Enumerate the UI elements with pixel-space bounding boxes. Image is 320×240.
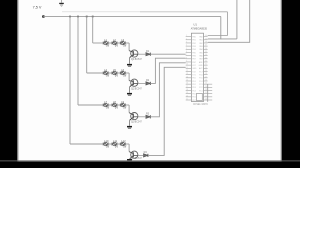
transistor Q3 [129,113,138,121]
wire row3 emitter to ground [129,120,131,126]
svg-text:5V: 5V [106,144,109,148]
wire row2 chain seg 1 [108,72,112,74]
label ATMEGA8535 [191,27,208,31]
svg-text:XT1: XT1 [192,75,195,77]
svg-text:14: 14 [186,76,188,78]
ground row4 [127,159,132,162]
svg-text:2: 2 [186,38,187,40]
svg-text:CKSEL=1MHz: CKSEL=1MHz [193,104,209,106]
svg-text:5V: 5V [106,43,109,47]
svg-text:PC6: PC6 [199,75,203,77]
svg-text:BC547: BC547 [135,158,143,160]
svg-text:21: 21 [186,99,188,101]
wire row1 feed [93,42,104,44]
transistor Q4 [129,151,138,159]
label Q4 BC547 [131,157,143,160]
wire row3 chain to collector [125,105,129,113]
svg-text:PB1: PB1 [192,40,195,42]
transistor Q1 [129,50,138,58]
IC U1 body [191,33,203,101]
svg-text:36: 36 [205,48,207,50]
svg-text:PB4: PB4 [192,49,195,51]
svg-text:20: 20 [205,99,207,101]
junction drop 2 on rail [86,16,88,18]
svg-text:26: 26 [205,79,207,81]
svg-text:PC1: PC1 [199,90,203,92]
svg-text:PA7: PA7 [199,58,202,61]
wire main +7,5V rail [43,15,221,17]
IC internal sub-box [197,93,203,100]
svg-text:PB6: PB6 [192,56,195,58]
lamp L6 row2 [120,68,126,77]
wire row4 feed [70,143,104,145]
wire IC pin3 to top edge [208,0,250,42]
svg-text:PB2: PB2 [192,43,195,45]
wire vertical drop 2 [86,16,88,73]
svg-text:8: 8 [186,57,187,59]
wire row4 emitter to ground [129,158,131,160]
wire row3 base lead a [138,116,146,118]
svg-text:23: 23 [205,89,207,91]
svg-text:20: 20 [186,95,188,97]
svg-text:32: 32 [205,60,207,62]
wire row2 to IC pin [150,58,185,83]
svg-text:5: 5 [186,48,187,50]
lamp L11 row4 [112,139,118,148]
svg-text:PC7: PC7 [199,71,203,73]
svg-text:5V: 5V [115,43,118,47]
svg-text:31: 31 [205,64,207,66]
svg-text:34: 34 [205,54,207,56]
left letterbox bar [0,0,19,168]
wire row3 feed [78,104,104,106]
svg-text:PD5: PD5 [192,94,196,96]
svg-text:PA2: PA2 [199,42,202,45]
svg-text:BC547: BC547 [135,122,143,124]
svg-text:24: 24 [205,86,207,88]
lamp L10 row4 [103,139,109,148]
wire faint top rail (battery+ to IC pin1) [62,12,227,36]
svg-text:BC547: BC547 [135,59,143,61]
lamp L5 row2 [112,68,118,77]
svg-text:PA5: PA5 [199,51,202,54]
svg-text:15: 15 [186,79,188,81]
svg-text:5V: 5V [115,73,118,77]
right letterbox bar [280,0,300,168]
svg-text:3: 3 [186,41,187,43]
wire row2 base lead a [138,82,146,84]
wire row2 chain seg 2 [117,72,121,74]
svg-text:30: 30 [205,67,207,69]
svg-text:PC5: PC5 [199,78,203,80]
wire row3 to IC pin [150,63,185,117]
lamp L9 row3 [120,100,126,109]
svg-text:PA0: PA0 [199,36,202,39]
wire row1 emitter to ground [129,58,131,64]
svg-text:37: 37 [205,45,207,47]
lamp L12 row4 [120,139,126,148]
svg-text:35: 35 [205,51,207,53]
lamp L3 row1 [120,38,126,47]
ground row1 [127,64,132,67]
resistor R4 (base) [144,151,148,157]
wire row1 chain seg 2 [117,42,121,44]
IC U1 left pins [186,35,197,102]
svg-text:9: 9 [186,60,187,62]
wire row3 chain seg 1 [108,104,112,106]
svg-text:PD1: PD1 [192,81,196,83]
svg-text:PD3: PD3 [192,87,196,89]
svg-text:5V: 5V [123,105,126,109]
svg-text:12: 12 [186,70,188,72]
wire row1 chain to collector [125,43,129,51]
wire row4 chain seg 1 [108,143,112,145]
svg-text:33: 33 [205,57,207,59]
svg-text:5V: 5V [106,105,109,109]
svg-text:PA4: PA4 [199,48,202,51]
svg-text:5V: 5V [115,105,118,109]
ground symbol (top, battery negative) [59,0,64,7]
wire vertical drop 1 [92,16,94,43]
wire row2 emitter to ground [129,87,131,93]
wire right-pin bus (bottom right pins) [207,84,209,102]
label Q3 BC547 [131,121,143,124]
label Q2 BC547 [131,87,143,90]
label U1 [193,22,197,26]
svg-text:PB7: PB7 [192,59,195,61]
ground row3 [127,126,132,129]
wire row1 base lead a [138,53,146,55]
junction drop 1 on rail [92,16,94,18]
resistor R2 (base) [146,79,150,85]
label 7,5 V (supply voltage) [33,6,42,10]
svg-text:5V: 5V [123,144,126,148]
svg-text:PB0: PB0 [192,37,195,39]
wire row4 chain to collector [125,144,129,152]
svg-text:7: 7 [186,54,187,56]
svg-text:29: 29 [205,70,207,72]
svg-text:PA1: PA1 [199,39,202,42]
svg-text:PD6: PD6 [192,97,196,99]
wire top vertical to pin2 net [221,0,237,39]
wire row2 feed [87,72,104,74]
svg-text:11: 11 [186,67,188,69]
ground row2 [127,93,132,96]
svg-text:1: 1 [186,35,187,37]
node dot (7,5V net) [42,15,45,18]
svg-text:GND: GND [192,68,197,70]
lamp L1 row1 [103,38,109,47]
IC U1 right pins [199,35,213,102]
wire row4 chain seg 2 [117,143,121,145]
wire row2 chain to collector [125,73,129,81]
label Q1 BC547 [131,58,143,61]
svg-text:PD4: PD4 [192,90,196,92]
svg-text:PC3: PC3 [199,84,203,86]
svg-text:PB3: PB3 [192,46,195,48]
svg-text:40: 40 [205,35,207,37]
lamp L4 row2 [103,68,109,77]
svg-text:PD7: PD7 [192,100,196,102]
svg-text:6: 6 [186,51,187,53]
wire row3 chain seg 2 [117,104,121,106]
wire vertical drop 4 [69,16,71,144]
junction drop 3 on rail [77,16,79,18]
wire row4 base lead a [138,154,143,156]
svg-text:ATMEGA8535: ATMEGA8535 [191,27,208,31]
svg-text:PD2: PD2 [192,84,196,86]
bottom letterbox bar [0,160,300,168]
svg-text:XT2: XT2 [192,71,195,73]
svg-text:22: 22 [205,92,207,94]
resistor R3 (base) [146,113,150,119]
svg-text:21: 21 [205,95,207,97]
svg-text:27: 27 [205,76,207,78]
svg-text:7,5 V: 7,5 V [33,6,42,10]
wire rail to IC pin2 [208,16,221,38]
svg-text:13: 13 [186,73,188,75]
svg-text:17: 17 [186,86,188,88]
junction drop 4 on rail [69,16,71,18]
svg-text:PA3: PA3 [199,45,202,48]
lamp L7 row3 [103,100,109,109]
svg-text:5V: 5V [115,144,118,148]
svg-text:PB5: PB5 [192,52,195,54]
svg-text:16: 16 [186,83,188,85]
svg-text:28: 28 [205,73,207,75]
transistor Q2 [129,79,138,87]
svg-text:5V: 5V [123,43,126,47]
svg-text:PC4: PC4 [199,81,203,83]
svg-text:5V: 5V [106,73,109,77]
svg-text:BC547: BC547 [135,88,143,90]
svg-text:4: 4 [186,45,187,47]
svg-text:39: 39 [205,38,207,40]
svg-text:U1: U1 [193,22,197,26]
wire row1 to IC pin [150,53,185,55]
svg-text:PD0: PD0 [192,78,196,80]
lamp L8 row3 [112,100,118,109]
lamp L2 row1 [112,38,118,47]
label below IC [193,104,209,106]
wire row1 chain seg 1 [108,42,112,44]
svg-text:10: 10 [186,64,188,66]
svg-text:38: 38 [205,41,207,43]
svg-text:25: 25 [205,83,207,85]
svg-text:GND: GND [199,65,204,67]
svg-text:PC2: PC2 [199,87,203,89]
wire vertical drop 3 [77,16,79,105]
resistor R1 (base) [146,50,150,56]
svg-text:PA6: PA6 [199,55,202,58]
svg-text:5V: 5V [123,73,126,77]
wire row4 to IC pin [148,67,186,155]
svg-text:18: 18 [186,89,188,91]
svg-text:19: 19 [186,92,188,94]
